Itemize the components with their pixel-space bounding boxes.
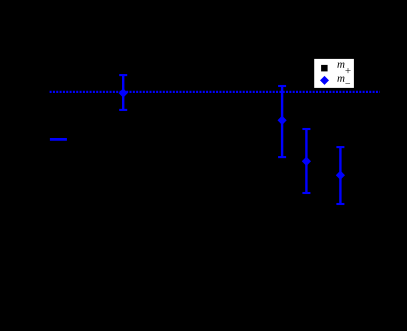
point P3 diamond bbox=[302, 157, 311, 166]
legend box bbox=[314, 59, 354, 88]
point P4 error bar bbox=[339, 147, 341, 204]
point P4 top cap bbox=[336, 146, 344, 148]
legend label m- bbox=[337, 77, 344, 82]
point P4 diamond bbox=[336, 171, 345, 180]
point P1 error bar bbox=[122, 75, 124, 110]
point P4 bottom cap bbox=[336, 203, 344, 205]
point P1 bottom cap bbox=[119, 109, 127, 111]
point P3 bottom cap bbox=[302, 192, 310, 194]
point P3 top cap bbox=[302, 128, 310, 130]
dotted horizontal reference line bbox=[50, 91, 380, 93]
legend blue diamond marker bbox=[320, 76, 329, 85]
legend label m+ bbox=[337, 63, 344, 68]
point P2 top cap bbox=[278, 85, 286, 87]
point P2 diamond bbox=[278, 116, 287, 125]
point P1 top cap bbox=[119, 74, 127, 76]
point P2 error bar bbox=[281, 86, 283, 157]
legend black square marker bbox=[321, 65, 328, 72]
short dash marker lower-left bbox=[50, 138, 67, 141]
point P3 error bar bbox=[305, 129, 307, 193]
point P1 diamond bbox=[119, 88, 128, 97]
point P2 bottom cap bbox=[278, 156, 286, 158]
